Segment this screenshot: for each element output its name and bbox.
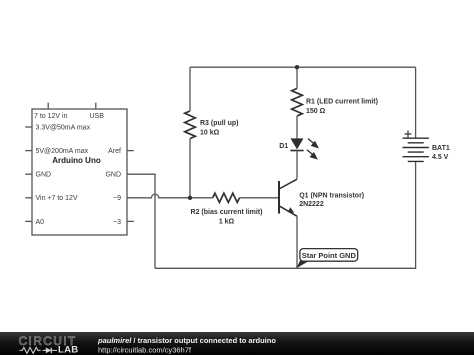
svg-text:4.5 V: 4.5 V <box>432 154 449 161</box>
wire top rail <box>190 66 416 68</box>
resistor R2 <box>213 193 240 202</box>
wire right rail lower (battery - to bottom) <box>415 161 417 268</box>
arduino top pin (USB) <box>95 103 97 109</box>
arduino right pin Aref <box>127 150 134 152</box>
label R2 <box>191 209 263 226</box>
transistor Q1 <box>279 179 297 216</box>
wire bottom rail <box>155 267 416 269</box>
junction node R3/R2 <box>188 196 192 200</box>
svg-text:Aref: Aref <box>108 148 121 155</box>
svg-text:D1: D1 <box>279 143 288 150</box>
label R1 <box>306 98 378 115</box>
svg-text:R3 (pull up): R3 (pull up) <box>200 120 239 127</box>
arduino left pin GND <box>25 173 32 175</box>
wire R1 to LED <box>296 116 298 139</box>
arduino left pin Vin <box>25 197 32 199</box>
svg-text:7 to 12V in: 7 to 12V in <box>34 113 68 120</box>
svg-text:A0: A0 <box>36 219 45 226</box>
wire arduino pin 9 to base (with hop over GND wire) <box>127 194 279 198</box>
wire arduino GND to bottom rail <box>127 174 155 268</box>
svg-text:2N2222: 2N2222 <box>299 201 324 208</box>
wire emitter to bottom rail <box>296 216 298 268</box>
svg-text:Q1 (NPN transistor): Q1 (NPN transistor) <box>299 192 364 199</box>
svg-text:R2 (bias current limit): R2 (bias current limit) <box>191 209 263 216</box>
wire R3 top <box>189 67 191 111</box>
footer logo diode <box>43 348 58 354</box>
wire R3 bottom <box>189 139 191 198</box>
arduino left pin 3.3V <box>25 126 32 128</box>
battery plus sign <box>405 131 412 138</box>
Star Point GND flag <box>296 249 357 269</box>
svg-text:R1 (LED current limit): R1 (LED current limit) <box>306 98 378 105</box>
LED D1 <box>290 139 317 159</box>
svg-text:GND: GND <box>105 172 121 179</box>
svg-text:3.3V@50mA max: 3.3V@50mA max <box>36 125 91 132</box>
svg-text:10 kΩ: 10 kΩ <box>200 130 220 137</box>
svg-text:5V@200mA max: 5V@200mA max <box>36 148 89 155</box>
arduino left pin 5V <box>25 150 32 152</box>
svg-text:~3: ~3 <box>113 219 121 226</box>
resistor R1 <box>292 88 303 116</box>
arduino left pin A0 <box>25 220 32 222</box>
arduino top pin (7 to 12V in) <box>47 103 49 109</box>
svg-text:GND: GND <box>36 172 52 179</box>
svg-text:USB: USB <box>90 113 105 120</box>
svg-text:Star Point GND: Star Point GND <box>302 251 357 260</box>
arduino U1 box <box>32 109 127 235</box>
wire right rail upper (to battery +) <box>415 67 417 138</box>
svg-text:~9: ~9 <box>113 195 121 202</box>
svg-text:150 Ω: 150 Ω <box>306 108 326 115</box>
battery BAT1 <box>403 138 429 161</box>
svg-text:paulmirel / transistor output: paulmirel / transistor output connected … <box>97 336 276 345</box>
arduino pin labels <box>34 113 121 226</box>
label R3 <box>200 120 239 137</box>
svg-text:1 kΩ: 1 kΩ <box>219 218 235 225</box>
footer logo zigzag <box>20 347 41 353</box>
resistor R3 <box>185 111 196 139</box>
label Q1 <box>299 192 364 208</box>
wire R1 top <box>296 67 298 88</box>
label BAT1 <box>432 145 450 161</box>
svg-text:BAT1: BAT1 <box>432 145 450 152</box>
svg-text:LAB: LAB <box>58 344 78 355</box>
arduino right pin ~3 <box>127 220 134 222</box>
wire LED to collector <box>296 151 298 179</box>
svg-text:http://circuitlab.com/cy36h7f: http://circuitlab.com/cy36h7f <box>98 345 192 354</box>
svg-text:Arduino Uno: Arduino Uno <box>52 156 101 165</box>
svg-text:Vin +7 to 12V: Vin +7 to 12V <box>36 195 78 202</box>
junction node top rail / R1 <box>295 65 299 69</box>
footer bar <box>0 332 474 355</box>
